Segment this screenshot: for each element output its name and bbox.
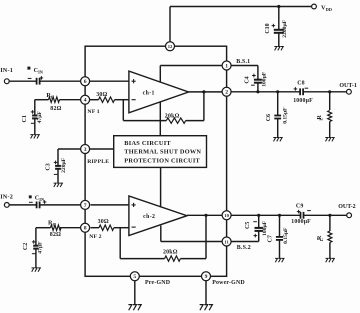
svg-text:C5: C5 [245, 222, 251, 229]
svg-text:C6: C6 [266, 114, 272, 121]
svg-text:30Ω: 30Ω [98, 219, 109, 225]
svg-text:20kΩ: 20kΩ [163, 249, 178, 255]
svg-text:ch-1: ch-1 [143, 90, 155, 96]
svg-text:THERMAL SHUT DOWN: THERMAL SHUT DOWN [124, 149, 201, 156]
svg-text:RIPPLE: RIPPLE [87, 159, 109, 165]
svg-text:NF 2: NF 2 [89, 234, 101, 240]
svg-text:C9: C9 [296, 204, 304, 210]
svg-text:L: L [319, 238, 324, 241]
svg-text:IN-2: IN-2 [0, 193, 13, 200]
svg-text:B.S.1: B.S.1 [236, 59, 250, 65]
svg-text:2: 2 [225, 90, 228, 96]
svg-text:30Ω: 30Ω [96, 92, 107, 98]
svg-text:1000μF: 1000μF [293, 98, 313, 104]
svg-text:20kΩ: 20kΩ [165, 113, 180, 119]
svg-text:47μF: 47μF [38, 241, 44, 254]
svg-text:100μF: 100μF [262, 220, 268, 236]
svg-text:2200μF: 2200μF [282, 19, 288, 37]
svg-text:8: 8 [84, 226, 87, 232]
svg-text:1: 1 [225, 63, 228, 69]
svg-text:6: 6 [84, 79, 87, 85]
svg-text:ch-2: ch-2 [143, 214, 155, 220]
svg-text:BIAS CIRCUIT: BIAS CIRCUIT [124, 140, 171, 147]
svg-text:9: 9 [205, 274, 208, 280]
svg-text:C3: C3 [46, 163, 52, 170]
svg-text:82Ω: 82Ω [50, 106, 61, 112]
svg-text:11: 11 [224, 239, 229, 244]
svg-text:7: 7 [84, 203, 87, 209]
svg-text:Pre-GND: Pre-GND [145, 280, 170, 286]
svg-text:0.15μF: 0.15μF [282, 107, 288, 124]
svg-text:NF 1: NF 1 [87, 109, 99, 115]
svg-text:3: 3 [84, 147, 87, 153]
svg-text:C7: C7 [267, 235, 273, 242]
svg-text:Power-GND: Power-GND [212, 280, 245, 286]
svg-text:C4: C4 [244, 76, 250, 83]
svg-text:12: 12 [168, 44, 173, 49]
svg-text:L: L [319, 118, 324, 121]
svg-text:1000μF: 1000μF [291, 219, 311, 225]
svg-text:IN-1: IN-1 [0, 67, 13, 74]
svg-text:220μF: 220μF [61, 157, 67, 173]
svg-text:PROTECTION CIRCUIT: PROTECTION CIRCUIT [124, 157, 200, 164]
svg-text:4: 4 [84, 98, 87, 104]
svg-text:C2: C2 [23, 243, 29, 250]
svg-text:OUT-1: OUT-1 [339, 83, 356, 89]
svg-text:C1: C1 [22, 115, 28, 122]
svg-text:C10: C10 [265, 23, 271, 33]
svg-text:OUT-2: OUT-2 [338, 204, 355, 210]
svg-text:100μF: 100μF [262, 71, 268, 87]
svg-text:47μF: 47μF [37, 111, 43, 124]
svg-text:10: 10 [224, 213, 229, 218]
svg-text:0.15μF: 0.15μF [283, 227, 289, 244]
svg-text:B.S.2: B.S.2 [237, 245, 251, 251]
svg-text:5: 5 [133, 274, 136, 280]
svg-text:C8: C8 [297, 80, 305, 86]
svg-text:82Ω: 82Ω [50, 232, 61, 238]
